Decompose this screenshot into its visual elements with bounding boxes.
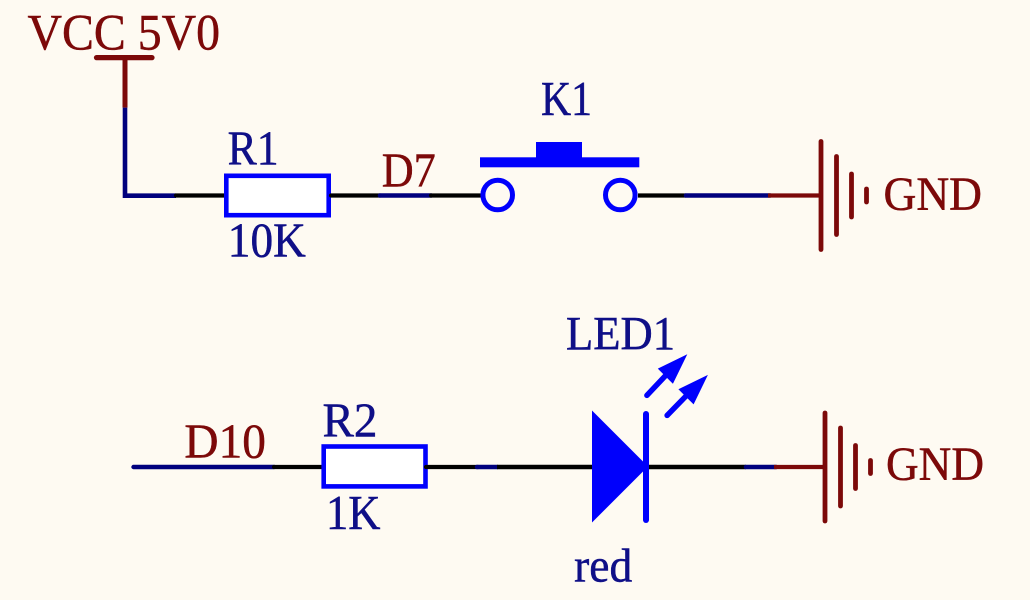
svg-text:GND: GND xyxy=(884,169,983,221)
svg-text:10K: 10K xyxy=(228,213,306,268)
svg-text:R1: R1 xyxy=(228,121,279,176)
svg-text:GND: GND xyxy=(886,439,984,491)
svg-text:LED1: LED1 xyxy=(566,308,675,360)
svg-text:D10: D10 xyxy=(184,414,266,469)
svg-text:D7: D7 xyxy=(382,142,436,197)
svg-text:K1: K1 xyxy=(541,71,592,126)
svg-text:red: red xyxy=(574,539,632,592)
svg-text:1K: 1K xyxy=(326,485,381,540)
svg-text:VCC 5V0: VCC 5V0 xyxy=(28,6,221,62)
svg-text:R2: R2 xyxy=(323,393,378,448)
